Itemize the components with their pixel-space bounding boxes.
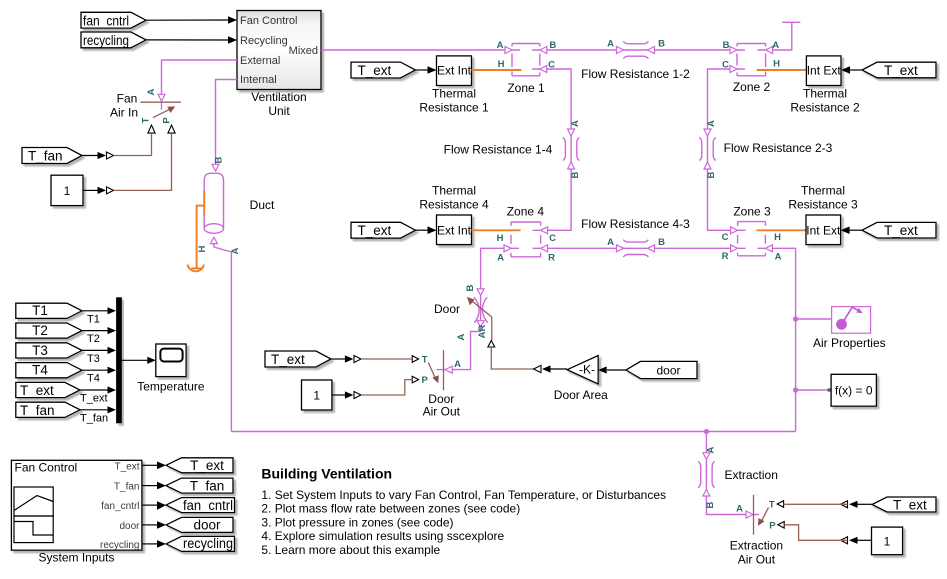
inport T_ext (row 1 left) [351,62,437,78]
svg-text:B: B [658,237,665,248]
inport T_ext (row 2 right) [841,222,936,238]
constant 1 (extraction) [872,527,903,555]
wire T_ext to Extraction Air Out T [784,501,872,508]
svg-text:A: A [736,504,743,515]
wire Thermal Resistance 4 H to Zone 4 [472,229,521,231]
svg-text:A: A [497,40,504,51]
node junction Air Properties [793,316,798,321]
gain Door Area [554,356,608,403]
wire 1 to Extraction Air Out P [784,525,871,544]
svg-text:P: P [422,375,429,386]
thermal block Thermal Resistance 1 (Ext Int) [419,56,489,115]
inport T_ext (mux) [16,382,80,398]
svg-text:Resistance 3: Resistance 3 [788,198,858,212]
svg-text:Air Out: Air Out [738,553,776,567]
wire System Inputs fan_cntrl out [142,501,166,510]
wire to Air Properties [796,318,832,320]
inport T2 [16,323,82,338]
svg-text:T3: T3 [32,343,48,358]
wire Zone 1 C to Zone 4 C via Flow Resistance 1-4 [540,60,581,234]
svg-text:H: H [774,232,781,243]
svg-text:T3: T3 [87,353,100,365]
svg-text:fan_cntrl: fan_cntrl [101,501,139,512]
wire mux to Temperature scope [122,357,156,364]
svg-text:Resistance 4: Resistance 4 [419,198,489,212]
inport T_ext (row 2 left) [351,222,437,238]
svg-text:Zone 4: Zone 4 [507,205,545,219]
svg-text:A: A [230,247,241,254]
svg-text:Int Ext: Int Ext [807,64,842,78]
wire recycling to Ventilation Unit [146,36,237,44]
svg-text:Temperature: Temperature [137,379,205,393]
svg-text:A: A [706,446,717,453]
svg-text:Flow Resistance 2-3: Flow Resistance 2-3 [724,141,833,155]
svg-text:Duct: Duct [250,198,275,212]
svg-text:C: C [548,60,555,71]
subsystem System Inputs [11,460,142,564]
wire Zone 2 H to Thermal Resistance 2 [757,69,807,71]
svg-text:T_ext: T_ext [358,63,392,78]
svg-text:1: 1 [884,534,891,548]
wire Zone 3 H to Thermal Resistance 3 [756,229,806,231]
svg-text:B: B [570,171,581,178]
node junction solver [793,387,798,392]
svg-text:Air Out: Air Out [423,405,461,419]
scope Temperature [137,344,205,393]
svg-text:B: B [705,501,716,508]
wire T_fan to Fan Air In T [82,134,152,159]
wire Zone 4 R to Zone 3 R via Flow Resistance 4-3 [541,237,738,252]
svg-text:Ext Int: Ext Int [437,64,472,78]
svg-text:H: H [497,233,504,244]
wire Door AR to Door Area [477,317,567,373]
svg-text:P: P [769,520,776,531]
svg-text:T: T [422,355,428,366]
svg-text:Fan Control: Fan Control [15,461,78,475]
wire bottom bus [231,429,795,434]
wire System Inputs T_fan out [142,482,166,490]
wire T4 to mux [82,367,116,385]
svg-text:T2: T2 [32,323,48,338]
svg-text:1. Set System Inputs to vary F: 1. Set System Inputs to vary Fan Control… [261,488,666,502]
svg-text:Zone 1: Zone 1 [507,81,545,95]
svg-text:T_fan: T_fan [80,412,108,424]
svg-text:T_fan: T_fan [20,403,55,418]
inport T3 [16,343,82,358]
svg-text:Resistance 1: Resistance 1 [419,101,489,115]
svg-text:A: A [456,333,467,340]
block Air Properties [813,307,886,350]
mux [116,297,122,423]
svg-text:R: R [548,253,555,264]
svg-text:Internal: Internal [240,74,277,86]
constant 1 (fan) [51,175,83,205]
wire 1 to Fan Air In P [83,134,172,194]
wire Zone 1 B to Flow Resistance 1-2 to Zone 2 B [540,39,737,54]
svg-text:Recycling: Recycling [240,35,288,47]
inport T4 [16,363,82,378]
svg-text:fan_cntrl: fan_cntrl [83,14,129,29]
svg-text:T_ext: T_ext [114,461,139,472]
source Extraction Air Out [730,495,784,567]
svg-text:A: A [497,253,504,264]
svg-text:Resistance 2: Resistance 2 [790,101,860,115]
svg-text:C: C [549,233,556,244]
thermal block Thermal Resistance 4 (Ext Int) [419,184,489,245]
svg-text:recycling: recycling [100,540,139,551]
svg-text:Ventilation: Ventilation [251,90,306,104]
svg-text:A: A [146,88,157,95]
svg-text:fan_cntrl: fan_cntrl [183,498,233,513]
svg-text:A: A [607,39,614,50]
svg-text:T_ext: T_ext [20,383,54,398]
wire T_ext to mux [80,386,116,404]
thermal block Thermal Resistance 2 (Int Ext) [790,56,860,115]
svg-text:B: B [723,40,730,51]
wire System Inputs T_ext out [142,462,166,470]
svg-text:Door: Door [434,302,460,316]
svg-text:B: B [465,284,476,291]
svg-text:Thermal: Thermal [432,87,476,101]
svg-text:T_ext: T_ext [358,223,392,238]
svg-text:Extraction: Extraction [730,539,783,553]
wire bus to Extraction [703,432,717,460]
inport door [598,361,697,378]
svg-text:H: H [498,59,505,70]
source Fan Air In [110,92,181,134]
inport T_fan [22,148,82,164]
zone block Zone 4 [497,205,557,264]
svg-text:External: External [240,55,280,67]
pipe Duct [204,173,275,233]
wire Door A to Door Air Out [437,321,485,373]
wire Zone 2 A to vent [766,22,801,53]
svg-text:Fan: Fan [117,92,138,106]
outport fan_cntrl [166,498,235,513]
wire System Inputs door out [142,521,166,529]
wire Extraction B to Extraction Air Out [703,489,759,518]
svg-text:4. Explore simulation results: 4. Explore simulation results using ssce… [261,529,504,543]
svg-text:T: T [141,117,152,123]
svg-text:Extraction: Extraction [725,468,778,482]
inport T_fan (mux) [16,402,80,418]
svg-text:-K-: -K- [579,363,595,377]
wire System Inputs recycling out [142,540,166,548]
svg-text:H: H [773,59,780,70]
svg-text:B: B [549,40,556,51]
wire T_ext to Door Air Out T [331,355,412,362]
svg-text:Thermal: Thermal [432,184,476,198]
svg-text:AR: AR [477,325,488,339]
wire Internal to Duct B [212,80,237,172]
svg-text:A: A [706,120,717,127]
restriction Flow Resistance 2-3 [699,137,832,160]
svg-text:C: C [722,232,729,243]
wire Mixed to Zone 1 A [321,40,512,54]
svg-text:Int Ext: Int Ext [806,223,841,237]
wire to solver [796,389,832,391]
wire Duct A to bottom bus [210,237,241,431]
svg-text:R: R [722,251,729,262]
svg-text:Flow Resistance 1-4: Flow Resistance 1-4 [444,143,553,157]
svg-text:Thermal: Thermal [803,87,847,101]
svg-text:T2: T2 [87,333,100,345]
wire Zone 2 C to Zone 3 C via Flow Resistance 2-3 [704,66,738,234]
wire fan_cntrl to Ventilation Unit [146,16,237,24]
svg-text:A: A [772,40,779,51]
svg-text:B: B [706,171,717,178]
svg-text:A: A [570,120,581,127]
zone block Zone 2 [722,44,780,95]
svg-text:Fan Control: Fan Control [240,15,297,27]
outport door [166,517,233,532]
inport fan_cntrl [81,12,146,28]
subsystem Ventilation Unit [237,11,321,119]
svg-text:T_fan: T_fan [28,149,63,164]
svg-text:System Inputs: System Inputs [38,551,114,565]
wire Zone 4 A to Door valve [465,245,511,296]
inport recycling [81,32,146,48]
svg-text:Zone 3: Zone 3 [733,205,771,219]
zone block Zone 3 [722,205,782,263]
svg-text:2. Plot mass flow rate between: 2. Plot mass flow rate between zones (se… [261,502,520,516]
svg-text:1: 1 [313,389,320,403]
svg-text:Air In: Air In [110,106,138,120]
restriction Flow Resistance 1-4 [444,137,580,160]
svg-text:T_fan: T_fan [114,482,140,493]
restriction Extraction [698,458,778,490]
svg-text:T_ext: T_ext [80,393,108,405]
svg-text:Thermal: Thermal [801,184,845,198]
svg-text:A: A [454,359,461,370]
inport T_ext (extraction) [872,497,936,513]
svg-text:Unit: Unit [268,104,290,118]
svg-text:Door Area: Door Area [554,388,608,402]
svg-text:T_fan: T_fan [190,478,225,493]
svg-text:Building Ventilation: Building Ventilation [261,466,392,482]
svg-text:T_ext: T_ext [884,63,918,78]
restriction Flow Resistance 1-2 [581,41,690,81]
inport T_ext (row 1 right) [841,62,936,78]
svg-text:B: B [214,156,225,163]
restriction Flow Resistance 4-3 [581,217,690,257]
svg-text:T_ext: T_ext [884,223,918,238]
inport T1 [16,303,82,318]
svg-text:H: H [197,245,208,252]
svg-text:door: door [119,521,140,532]
wire T1 to mux [82,307,116,325]
svg-text:Mixed: Mixed [289,45,318,57]
svg-text:Flow Resistance 4-3: Flow Resistance 4-3 [581,217,690,231]
valve Door [434,294,492,323]
wire T3 to mux [82,347,116,365]
svg-text:T_ext: T_ext [893,498,927,513]
wire T_fan to mux [80,406,116,424]
wire 1 to Door Air Out P [332,380,412,399]
svg-text:Air Properties: Air Properties [813,336,886,350]
svg-text:recycling: recycling [83,33,129,48]
svg-text:Ext Int: Ext Int [437,223,472,237]
outport T_ext [166,458,233,473]
svg-text:A: A [775,252,782,263]
thermal block Thermal Resistance 3 (Int Ext) [788,184,858,245]
svg-text:3. Plot pressure in zones (see: 3. Plot pressure in zones (see code) [261,515,453,529]
wire Thermal Resistance 1 H to Zone 1 [472,69,522,71]
svg-text:T_ext: T_ext [190,458,224,473]
inport T_ext (door) [265,351,331,367]
svg-text:T_ext: T_ext [271,352,305,367]
svg-text:T1: T1 [32,303,48,318]
svg-text:T1: T1 [87,313,100,325]
svg-text:Flow Resistance 1-2: Flow Resistance 1-2 [581,67,690,81]
svg-text:door: door [193,518,221,533]
svg-text:T4: T4 [87,373,100,385]
svg-text:1: 1 [64,184,71,198]
outport T_fan [166,478,233,493]
svg-text:Zone 2: Zone 2 [733,80,771,94]
constant 1 (door) [302,380,332,410]
source Door Air Out [412,350,460,418]
svg-text:recycling: recycling [183,536,233,551]
outport recycling [166,536,235,551]
svg-text:T4: T4 [32,363,48,378]
svg-text:f(x) = 0: f(x) = 0 [835,383,873,397]
svg-text:P: P [162,117,173,124]
wire T2 to mux [82,327,116,345]
svg-text:5. Learn more about this examp: 5. Learn more about this example [261,543,440,557]
thermal cap on Duct H [188,206,208,272]
solver block f(x) = 0 [831,374,876,406]
annotation Building Ventilation [261,466,666,557]
zone block Zone 1 [498,44,545,96]
svg-text:door: door [656,364,680,378]
svg-text:T: T [769,500,775,511]
svg-text:B: B [658,39,665,50]
wire Zone 3 A to right column [765,245,795,432]
svg-text:A: A [607,237,614,248]
wire External to Fan Air In [146,60,237,110]
